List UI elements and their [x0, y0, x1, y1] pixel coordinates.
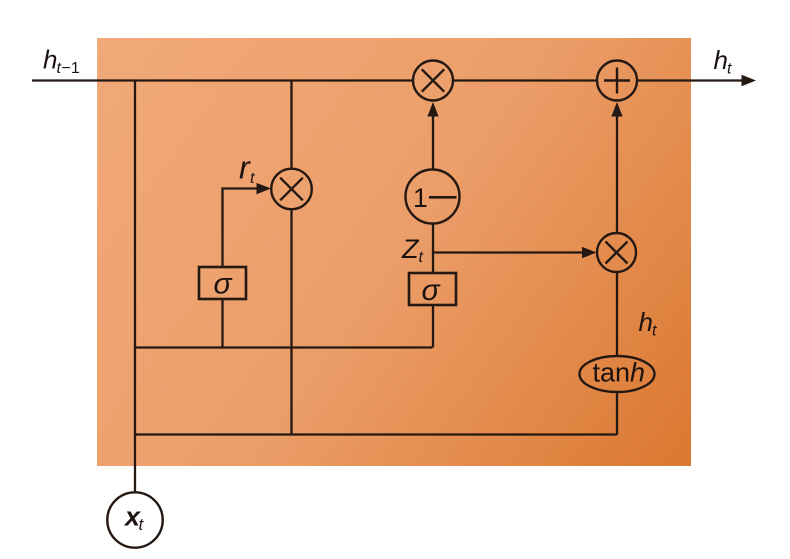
- svg-text:−1: −1: [62, 60, 80, 77]
- svg-text:t: t: [652, 323, 657, 340]
- svg-text:σ: σ: [214, 268, 234, 301]
- svg-text:h: h: [43, 45, 57, 75]
- svg-text:t: t: [419, 249, 424, 266]
- svg-text:tanh: tanh: [593, 358, 646, 388]
- svg-text:σ: σ: [422, 274, 442, 307]
- svg-text:1: 1: [413, 183, 428, 213]
- svg-text:t: t: [727, 61, 732, 78]
- svg-text:Z: Z: [401, 234, 420, 264]
- svg-text:t: t: [250, 170, 255, 187]
- svg-text:h: h: [714, 45, 728, 75]
- svg-text:h: h: [639, 307, 653, 337]
